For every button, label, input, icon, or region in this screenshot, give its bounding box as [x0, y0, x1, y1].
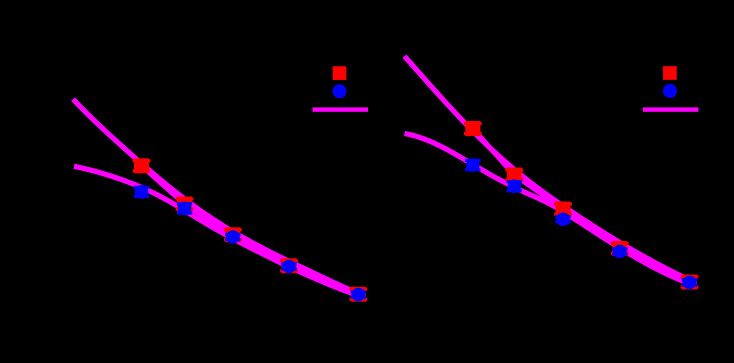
data point R2: red square marker with error bar caps: [505, 168, 523, 183]
right legend: magenta line entry: [643, 107, 699, 111]
data point R3: red square marker with error bar caps: [554, 202, 572, 217]
data point R5: red square marker with error bar caps: [681, 275, 699, 290]
data point R1: red square marker with error bar caps: [464, 121, 482, 136]
left panel: gentle magenta fit curve through blue data: [74, 166, 352, 293]
right legend: blue circle entry: [663, 84, 677, 98]
data point L5: red square marker with error bar caps: [350, 287, 368, 302]
data point L5: blue circle marker with error bar caps: [351, 288, 366, 302]
data point R3: blue circle marker with error bar caps: [555, 213, 570, 227]
data point L4: red square marker with error bar caps: [280, 258, 298, 273]
right panel: gentle magenta fit curve through blue data: [405, 134, 684, 282]
data point L3: red square marker with error bar caps: [224, 227, 242, 242]
data point L1: blue circle marker with error bar caps: [134, 185, 149, 199]
data point R1: blue circle marker with error bar caps: [465, 158, 480, 172]
data point R4: blue circle marker with error bar caps: [612, 245, 627, 259]
right legend: red square entry: [663, 66, 677, 80]
data point R5: blue circle marker with error bar caps: [682, 276, 697, 290]
left legend: red square entry: [333, 66, 347, 80]
right panel: steep magenta fit curve through red data: [405, 56, 684, 277]
data point L4: blue circle marker with error bar caps: [281, 260, 296, 274]
data point L1: red square marker with error bar caps: [133, 158, 151, 173]
left legend: blue circle entry: [333, 84, 347, 98]
data point L3: blue circle marker with error bar caps: [225, 230, 240, 244]
data point L2: red square marker with error bar caps: [176, 197, 194, 212]
left panel: steep magenta fit curve through red data: [73, 99, 352, 291]
data point L2: blue circle marker with error bar caps: [177, 202, 192, 216]
right panel: magenta polyline connecting red data points: [473, 129, 690, 283]
data point R4: red square marker with error bar caps: [611, 241, 629, 256]
data point R2: blue circle marker with error bar caps: [507, 179, 522, 193]
left panel: magenta polyline connecting red data points: [142, 166, 359, 294]
left legend: magenta line entry: [313, 107, 369, 111]
